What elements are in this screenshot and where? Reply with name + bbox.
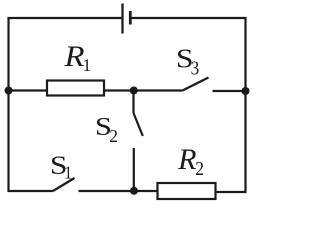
wire: R1 to middle junction (104, 89, 134, 91)
wire: middle wire, left edge to R1 (9, 89, 48, 91)
node: junction dot left edge / middle wire (5, 87, 13, 95)
resistor R1 box (47, 81, 104, 96)
switch S2 lower wire (133, 148, 135, 191)
wire: S3 contact to right edge (213, 90, 246, 92)
label R1: R (64, 47, 84, 66)
label R2: subscript 2 (196, 162, 203, 175)
switch S3 blade (183, 78, 209, 91)
wire: top edge right of battery (130, 17, 246, 19)
node: junction dot middle (S2 top) (130, 87, 138, 95)
node: junction dot bottom (S2 bottom) (130, 187, 138, 195)
switch S2 blade (134, 113, 143, 136)
wire: S1 contact to R2 (79, 190, 158, 192)
wire: left edge (7, 17, 9, 192)
switch S2 upper wire (132, 91, 134, 114)
label S2: subscript 2 (110, 130, 117, 142)
label S2: S (97, 118, 110, 135)
resistor R2 box (158, 183, 216, 199)
label S3: subscript 3 (192, 61, 199, 74)
label R2: R (178, 150, 196, 169)
label R1: subscript 1 (84, 59, 90, 71)
label S3: S (178, 50, 192, 68)
battery long plate (121, 4, 123, 34)
wire: R2 to bottom right corner (216, 191, 247, 193)
label S1: subscript 1 (66, 166, 72, 178)
node: junction dot right edge / middle wire (242, 87, 250, 95)
wire: top edge left of battery (8, 17, 123, 19)
wire: bottom edge, left corner to S1 pivot (8, 190, 54, 192)
switch S1 blade (53, 178, 75, 191)
wire: middle junction to S3 pivot (134, 89, 183, 91)
label S1: S (52, 157, 66, 175)
wire: right edge (244, 17, 246, 193)
battery short plate (129, 11, 132, 25)
